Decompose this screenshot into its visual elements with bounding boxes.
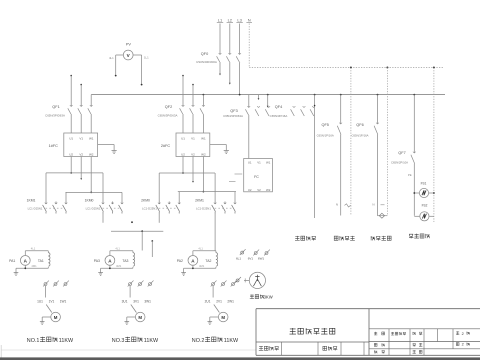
svg-text:FS1: FS1 [421, 182, 427, 186]
wire 1#FC W2 out [90, 157, 92, 193]
wire 2#FC collector A [159, 172, 215, 174]
svg-text:U1: U1 [248, 161, 252, 165]
svg-text:W1: W1 [89, 137, 94, 141]
cell electric control [391, 332, 394, 335]
terminals 1 [44, 283, 47, 286]
wire QF1 stub1 [70, 75, 72, 77]
svg-text:2W1: 2W1 [227, 300, 234, 304]
svg-text:M: M [138, 315, 142, 320]
svg-text:3U1: 3U1 [122, 300, 128, 304]
wire QF3 stub2 [258, 95, 260, 99]
svg-text:1W1: 1W1 [60, 300, 67, 304]
label spare power [409, 234, 413, 238]
wire QF5 feeder [340, 95, 342, 124]
cell design [374, 343, 377, 346]
terminals cold pump [241, 251, 244, 254]
svg-text:N: N [248, 18, 251, 23]
label cold pump 3KW [250, 294, 254, 298]
wire drop 2KM1 c3 [234, 192, 236, 202]
wire 2#FC U2 out [182, 157, 184, 174]
svg-text:1KM0: 1KM0 [85, 199, 94, 203]
svg-text:QF1: QF1 [52, 105, 59, 109]
svg-text:1V1: 1V1 [49, 300, 55, 304]
frame bottom [1, 349, 256, 351]
svg-text:C65N/1P/16A: C65N/1P/16A [317, 134, 334, 138]
node bus-QF6 [377, 94, 379, 96]
label heater power [371, 236, 375, 240]
svg-text:4M1: 4M1 [31, 264, 37, 268]
svg-text:LC1-D25N1: LC1-D25N1 [28, 207, 43, 211]
title block right grid [368, 309, 370, 356]
neutral QF7 dashed [433, 68, 435, 223]
wire L3 drop [239, 24, 241, 55]
wire QF3 to FC [248, 116, 250, 159]
svg-text:11KW: 11KW [59, 338, 74, 344]
wire FS2 right [429, 215, 434, 217]
svg-text:QF0: QF0 [201, 52, 208, 56]
node bus-QF4stub [267, 94, 269, 96]
node bus-QF7 [413, 94, 415, 96]
svg-text:QF5: QF5 [322, 123, 329, 127]
cell page no [456, 343, 459, 346]
svg-text:V2: V2 [257, 188, 261, 192]
svg-text:LC1-D25N1: LC1-D25N1 [142, 207, 157, 211]
wire 1#FC collector A [46, 172, 103, 174]
svg-text:M: M [54, 315, 58, 320]
node bus-QF5 [340, 94, 342, 96]
wire FS2 left [414, 215, 419, 217]
svg-text:NO.2: NO.2 [192, 338, 205, 344]
neutral QF5 dashed [350, 68, 352, 216]
title block outline [256, 308, 480, 310]
svg-text:LC1-D25N1: LC1-D25N1 [86, 207, 101, 211]
svg-text:C65N/2P/10A: C65N/2P/10A [391, 161, 408, 165]
wire to motor 2 [212, 286, 214, 298]
wire 1#FC V2 out [80, 157, 82, 179]
svg-text:FS2: FS2 [422, 204, 428, 208]
svg-text:NO.1: NO.1 [27, 338, 40, 344]
svg-text:2V1: 2V1 [216, 300, 222, 304]
wire QF0 out L2 [229, 63, 231, 83]
VFD 2#FC [176, 133, 210, 157]
svg-text:PV: PV [126, 43, 132, 47]
wire PV left [116, 54, 124, 56]
pump cold water [249, 272, 265, 288]
svg-text:N: N [336, 203, 338, 207]
svg-text:2KM0: 2KM0 [141, 199, 150, 203]
wire 2#FC V2 out [192, 157, 194, 182]
svg-text:W1: W1 [266, 161, 271, 165]
wire TA2 bottom [184, 267, 216, 269]
terminals 3 [129, 283, 132, 286]
wire QF2 in3 [202, 95, 204, 106]
node N tap 2 [386, 67, 388, 69]
svg-text:V1: V1 [257, 161, 261, 165]
svg-text:4M1: 4M1 [116, 264, 122, 268]
svg-text:3W1: 3W1 [144, 300, 151, 304]
ground motor 3 [127, 316, 136, 318]
wire L1 drop [219, 24, 221, 55]
wire QF6 feeder [377, 95, 379, 124]
node N tap 1 [350, 67, 352, 69]
title block rows left [256, 341, 369, 343]
svg-text:L1: L1 [218, 18, 223, 23]
svg-text:N: N [372, 203, 374, 207]
VFD 1#FC [64, 133, 98, 157]
appliance QF6 [378, 215, 388, 217]
paper edge bar [0, 357, 480, 360]
wire 2KM1 to PA2 [214, 214, 216, 251]
node bus-QF2 [203, 94, 205, 96]
svg-text:2: 2 [462, 332, 464, 336]
ground 2#FC [210, 144, 227, 146]
label lighting [295, 236, 300, 241]
wire QF7 feeder [413, 95, 415, 153]
wire QF1 stub2 [80, 84, 82, 86]
svg-text:FC: FC [254, 175, 259, 179]
svg-text:V1: V1 [191, 137, 195, 141]
svg-text:2: 2 [462, 343, 464, 347]
svg-text:U1: U1 [69, 137, 73, 141]
svg-text:PA1: PA1 [9, 259, 15, 263]
wire TA2 top [193, 250, 216, 252]
ground PA1 [15, 268, 17, 272]
svg-text:4L1: 4L1 [198, 246, 203, 250]
svg-text:4M1: 4M1 [199, 264, 205, 268]
wire QF4 stub [267, 95, 269, 107]
wire QF2 to VFD [182, 115, 184, 133]
wire drop TA3 [141, 231, 143, 250]
wire 1KM0 c1 out [102, 214, 104, 223]
svg-text:3V1: 3V1 [133, 300, 139, 304]
neutral N dashed wire [248, 24, 250, 68]
cell spec [413, 332, 416, 335]
wire FS1 right [429, 192, 434, 194]
wire drop 1KM1 c3 [65, 192, 67, 201]
svg-text:2U1: 2U1 [205, 300, 211, 304]
label file name [323, 346, 327, 350]
wire FS1 left [414, 192, 419, 194]
svg-text:TA3: TA3 [122, 259, 128, 263]
svg-text:V1: V1 [79, 137, 83, 141]
wire to motor 3 [129, 286, 131, 298]
ground PA2 [183, 268, 185, 272]
cell major [374, 332, 377, 335]
wire lighting feeder [314, 95, 316, 218]
cell pages total [456, 331, 459, 334]
wire TA3 top [110, 250, 133, 252]
svg-text:W1: W1 [201, 137, 206, 141]
wire QF1 in3 [90, 95, 92, 106]
wire TA1 bottom [16, 267, 48, 269]
svg-text:6W1: 6W1 [258, 256, 265, 260]
svg-text:LC1-D25N1: LC1-D25N1 [196, 207, 211, 211]
svg-text:C65N/3P/D63A: C65N/3P/D63A [223, 114, 243, 118]
svg-text:QF4: QF4 [275, 105, 282, 109]
svg-text:TA1: TA1 [38, 259, 44, 263]
FC input marks [235, 173, 243, 175]
cell draft [374, 350, 377, 353]
motor M3 [135, 312, 145, 322]
svg-text:QF7: QF7 [398, 151, 405, 155]
node bus-lighting [314, 94, 316, 96]
svg-text:QF2: QF2 [165, 105, 172, 109]
motor M1 [51, 312, 61, 322]
wire QF3 in [248, 95, 250, 107]
wire drop 1KM0 c3 [121, 192, 123, 201]
wire collector pump3 [111, 230, 163, 232]
node N tap 3 [433, 67, 435, 69]
wire 2#FC W2 out [202, 157, 204, 192]
node stub pump3 a [131, 221, 133, 223]
svg-text:U2: U2 [248, 188, 252, 192]
svg-text:C65N/3P/16A: C65N/3P/16A [270, 114, 288, 118]
svg-text:QF3: QF3 [230, 109, 237, 113]
wire drop 2KM0 c3 [178, 192, 180, 202]
wire 1#FC U2 out [70, 157, 72, 173]
svg-text:PA3: PA3 [94, 259, 100, 263]
wire to motor 1 [45, 286, 47, 298]
svg-text:L2: L2 [228, 18, 233, 23]
node bus-L3in [239, 94, 241, 96]
wire stub pump3 c [151, 240, 153, 242]
neutral QF6 dashed [386, 68, 388, 216]
svg-text:PA2: PA2 [177, 259, 183, 263]
wire drop to 1KM0 [102, 173, 104, 202]
svg-text:M: M [221, 315, 225, 320]
svg-text:PE: PE [408, 173, 412, 177]
svg-text:U2: U2 [181, 153, 185, 157]
svg-text:1U1: 1U1 [37, 300, 43, 304]
svg-text:W2: W2 [201, 153, 206, 157]
svg-text:3KW: 3KW [264, 295, 273, 300]
svg-text:2#FC: 2#FC [161, 144, 171, 148]
wire 2#FC collector B [178, 191, 236, 193]
wire drop to 1KM1 [45, 173, 47, 202]
terminals 2 [212, 283, 215, 286]
wire QF0 out L3 [239, 63, 241, 95]
svg-text:QF6: QF6 [356, 123, 363, 127]
svg-text:L3: L3 [237, 18, 242, 23]
wire QF2 stub1 [182, 75, 184, 77]
wire pump left [244, 279, 249, 281]
svg-text:US0N300/300A: US0N300/300A [196, 60, 217, 64]
wire TA3 bottom [101, 267, 133, 269]
wire PV right [133, 54, 142, 56]
wire drop to 2KM0 [158, 173, 160, 202]
svg-text:V2: V2 [79, 153, 83, 157]
label project no [259, 346, 264, 351]
svg-text:4L1: 4L1 [115, 246, 120, 250]
svg-text:4L1: 4L1 [31, 246, 36, 250]
svg-text:11KW: 11KW [224, 338, 239, 344]
svg-text:U1: U1 [181, 137, 185, 141]
ground motor 1 [42, 316, 51, 318]
svg-text:V2: V2 [191, 153, 195, 157]
svg-text:C65N/1P/16A: C65N/1P/16A [351, 134, 368, 138]
svg-text:TA2: TA2 [205, 259, 211, 263]
wire QF2 stub2 [192, 84, 194, 86]
svg-text:W2: W2 [89, 153, 94, 157]
wire TA1 top [25, 250, 48, 252]
wire QF1 to VFD [70, 115, 72, 133]
wire QF0 out L1 [219, 63, 221, 74]
ground motor 2 [210, 316, 219, 318]
ground 1#FC [98, 144, 115, 146]
svg-text:11KW: 11KW [144, 338, 159, 344]
svg-text:1#FC: 1#FC [49, 144, 59, 148]
ground PA3 [100, 268, 102, 272]
VFD FC [244, 159, 273, 192]
svg-text:C65N/3P/D63A: C65N/3P/D63A [158, 114, 178, 118]
svg-text:U2: U2 [69, 153, 73, 157]
svg-text:1KM1: 1KM1 [27, 199, 36, 203]
svg-text:1L1: 1L1 [144, 56, 149, 60]
svg-text:W2: W2 [266, 188, 271, 192]
title text [290, 328, 296, 334]
svg-text:2KM1: 2KM1 [195, 199, 204, 203]
svg-text:6L1: 6L1 [236, 256, 241, 260]
wire 1#FC collector B [66, 191, 123, 193]
cell review [413, 344, 416, 347]
wire L2 drop [229, 24, 231, 55]
svg-text:6V1: 6V1 [248, 256, 254, 260]
motor M2 [218, 312, 228, 322]
svg-text:NO.3: NO.3 [112, 338, 125, 344]
wire drop to 2KM1 [214, 173, 216, 202]
main bus [91, 94, 445, 96]
svg-text:C65N/3P/D63A: C65N/3P/D63A [45, 114, 65, 118]
svg-text:4L1: 4L1 [109, 56, 114, 60]
label control power [334, 236, 338, 240]
cell date [413, 350, 416, 353]
wire 2KM0 c1 out [158, 214, 160, 223]
